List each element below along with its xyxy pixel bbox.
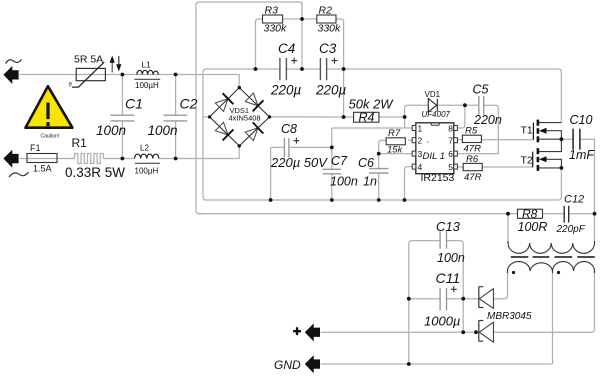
capacitor C12 <box>564 206 569 223</box>
svg-text:100R: 100R <box>518 220 548 234</box>
svg-text:C1: C1 <box>125 96 143 112</box>
wire C13 line <box>412 240 460 242</box>
svg-text:ϑ: ϑ <box>69 83 73 89</box>
transistor T2 <box>533 148 538 171</box>
svg-text:C6: C6 <box>358 156 374 170</box>
svg-text:8: 8 <box>448 124 453 134</box>
input arrow bottom <box>3 150 18 168</box>
svg-text:6: 6 <box>448 149 453 159</box>
svg-text:C8: C8 <box>281 122 297 136</box>
svg-text:C11: C11 <box>436 270 461 286</box>
wire C2 vertical <box>175 75 177 159</box>
wire pin4 drop <box>405 167 412 200</box>
wire x=302 vertical <box>301 2 303 69</box>
pin numbers <box>418 124 454 173</box>
svg-text:C13: C13 <box>436 219 461 234</box>
svg-text:L2: L2 <box>140 144 149 153</box>
svg-text:UF4007: UF4007 <box>422 110 451 119</box>
svg-text:15k: 15k <box>387 145 404 156</box>
resistor R6 <box>463 163 482 170</box>
wire C1 vertical <box>121 75 123 159</box>
svg-text:4: 4 <box>418 162 423 172</box>
wire VD1 riser and line <box>405 105 499 153</box>
svg-text:1: 1 <box>418 124 423 134</box>
wire C13-C11 left vertical <box>408 244 410 364</box>
svg-text:100n: 100n <box>96 123 126 138</box>
wire bottom inner bus y=200 <box>205 168 561 200</box>
capacitor C10 <box>573 129 580 150</box>
capacitor C5 <box>479 96 484 115</box>
wire R2 right riser x=343.6 <box>336 19 344 117</box>
svg-text:T2: T2 <box>521 155 533 167</box>
wire pin7 R5 to T1 gate <box>457 139 533 141</box>
wire C6 <box>378 154 380 200</box>
transistor T1 T2 connection stubs <box>538 123 562 168</box>
svg-text:R7: R7 <box>388 128 401 139</box>
svg-text:220pF: 220pF <box>556 224 586 235</box>
svg-text:C12: C12 <box>564 194 584 206</box>
thermistor 5R 5A <box>72 62 105 87</box>
wire C10 line <box>561 139 594 214</box>
capacitor C2 <box>164 115 188 121</box>
svg-text:100n: 100n <box>437 251 465 265</box>
svg-text:2: 2 <box>418 136 423 146</box>
diode D1 MBR3045 top <box>479 287 494 309</box>
wire D1 cathode line <box>463 298 478 300</box>
wire pin1 line <box>332 117 412 128</box>
wire top loop y=2 <box>196 2 302 15</box>
resistor R4 <box>354 112 379 122</box>
wire inner left vertical x=203 <box>203 69 206 200</box>
svg-text:Caution!: Caution! <box>41 134 60 140</box>
svg-text:C4: C4 <box>278 41 295 56</box>
capacitor C6 <box>369 169 389 173</box>
bridge diode top-left <box>215 93 233 111</box>
bridge diode top-right <box>245 93 263 111</box>
wire pin3 line <box>379 153 412 155</box>
wire sec w1 left to D1 <box>493 271 507 299</box>
svg-text:47R: 47R <box>464 144 482 155</box>
wire GND line <box>321 363 553 365</box>
wire Vcc riser x=331.8 / C8 line <box>331 128 333 169</box>
resistor R1 squarewave (gray) <box>75 154 104 164</box>
svg-text:R1: R1 <box>72 136 88 150</box>
polarity dot w2 <box>557 271 560 274</box>
svg-text:R8: R8 <box>522 207 538 221</box>
capacitor C8 <box>284 138 289 157</box>
wire plus output line / D2 cathode <box>321 331 479 333</box>
svg-text:VD1: VD1 <box>425 90 441 99</box>
svg-text:F1: F1 <box>30 143 41 153</box>
capacitor C7 <box>323 169 342 174</box>
wire pin8 riser <box>457 105 465 128</box>
svg-text:220µ: 220µ <box>315 83 347 98</box>
svg-text:R6: R6 <box>466 154 479 165</box>
wire bottom input rail y=158.5 <box>20 146 240 159</box>
wire center tap down to GND <box>552 271 554 364</box>
transformer TR primary <box>508 241 595 253</box>
svg-text:0.33R 5W: 0.33R 5W <box>65 165 125 180</box>
polarity dot w1 <box>512 271 515 274</box>
output arrow GND <box>305 355 320 373</box>
svg-text:R2: R2 <box>319 5 333 17</box>
output plus label <box>293 327 301 335</box>
svg-text:GND: GND <box>274 358 301 372</box>
inductor L1 <box>134 70 160 79</box>
svg-text:L1: L1 <box>142 61 151 70</box>
resistor R7 <box>386 138 405 145</box>
svg-text:100µH: 100µH <box>135 81 159 90</box>
warning triangle <box>26 86 73 128</box>
wire bridge minus stub <box>203 116 210 118</box>
svg-text:4xIN5408: 4xIN5408 <box>229 114 261 123</box>
wire primary right drop <box>594 214 596 243</box>
input tilde bottom <box>9 172 29 177</box>
bridge diode bottom-left <box>215 122 233 140</box>
inductor L2 <box>135 154 160 163</box>
wire R3-R2 link <box>283 18 317 20</box>
wire DC+ rail y=69 <box>205 69 561 123</box>
svg-text:1.5A: 1.5A <box>33 164 52 174</box>
svg-text:50k 2W: 50k 2W <box>349 97 395 112</box>
svg-text:C5: C5 <box>473 83 489 97</box>
wire pin5 R6 to T2 gate <box>457 166 533 168</box>
svg-text:1000µ: 1000µ <box>424 314 460 329</box>
down arrow <box>118 56 120 66</box>
svg-text:330k: 330k <box>264 23 288 35</box>
bridge VDS1 <box>210 88 270 146</box>
diode D2 MBR3045 bottom <box>479 321 494 343</box>
svg-text:C3: C3 <box>319 41 337 56</box>
IC U1 IR2153 <box>416 123 454 174</box>
svg-text:DIL 1: DIL 1 <box>423 151 446 162</box>
wire D2 anode to w2 right end <box>493 271 594 332</box>
wire top input rail y=74.5 <box>20 75 240 88</box>
svg-text:7: 7 <box>448 136 453 146</box>
svg-text:R5: R5 <box>465 126 478 137</box>
svg-text:47R: 47R <box>464 172 482 183</box>
wire bridge plus / R4 line <box>270 116 405 118</box>
capacitor C13 <box>440 231 446 248</box>
svg-text:R3: R3 <box>265 5 279 17</box>
svg-text:1mF: 1mF <box>569 148 595 162</box>
wire C8 left drop <box>270 147 272 200</box>
svg-text:5R 5A: 5R 5A <box>74 54 103 66</box>
up arrow <box>111 60 113 72</box>
svg-text:1n: 1n <box>363 175 377 189</box>
wire C11 line <box>409 298 464 300</box>
capacitor C4 <box>280 58 287 80</box>
svg-text:100µH: 100µH <box>135 167 159 176</box>
transformer core dashes <box>511 256 595 258</box>
svg-text:C10: C10 <box>570 113 593 127</box>
input arrow top <box>3 66 18 84</box>
diode VD1 <box>428 99 437 112</box>
svg-text:C2: C2 <box>180 96 198 112</box>
capacitor C1 <box>111 115 135 121</box>
transistor T1 <box>533 120 538 143</box>
wire outer left vertical x=196 <box>196 12 204 214</box>
svg-text:MBR3045: MBR3045 <box>487 311 532 322</box>
svg-text:220n: 220n <box>473 113 502 127</box>
svg-text:100n: 100n <box>148 123 178 138</box>
capacitor C11 <box>440 288 446 311</box>
capacitor C3 <box>320 58 326 80</box>
transformer secondary w1 <box>508 262 595 273</box>
svg-text:T1: T1 <box>521 125 533 137</box>
resistor R3 <box>263 15 283 23</box>
resistor R5 <box>462 135 481 142</box>
wire bottom outer bus y=213.7 <box>199 213 595 215</box>
svg-text:330k: 330k <box>318 23 342 35</box>
svg-text:220µ: 220µ <box>270 83 302 98</box>
bridge diode bottom-right <box>245 122 263 140</box>
input tilde top <box>6 60 22 64</box>
svg-text:R4: R4 <box>359 111 375 125</box>
svg-text:IR2153: IR2153 <box>421 172 455 184</box>
wire C7 bottom <box>331 174 333 200</box>
svg-text:5: 5 <box>448 162 453 172</box>
svg-text:220µ 50V: 220µ 50V <box>270 155 328 170</box>
wire R3 left riser <box>256 19 263 69</box>
fuse F1 <box>27 154 57 163</box>
svg-text:100n: 100n <box>330 175 358 189</box>
wire R7 / pin2 <box>379 140 412 153</box>
resistor R2 <box>317 15 336 23</box>
svg-text:C7: C7 <box>331 154 348 168</box>
output arrow plus <box>305 323 320 341</box>
resistor R8 <box>518 209 543 218</box>
wire primary left drop <box>507 214 509 243</box>
